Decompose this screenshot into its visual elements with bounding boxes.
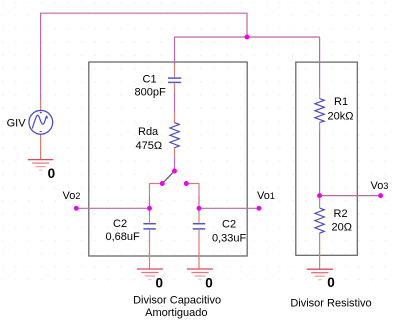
svg-text:GIV: GIV xyxy=(7,118,27,130)
svg-text:20Ω: 20Ω xyxy=(332,222,352,234)
svg-text:0: 0 xyxy=(205,275,213,290)
svg-text:0: 0 xyxy=(156,275,164,290)
svg-text:Amortiguado: Amortiguado xyxy=(145,307,207,319)
svg-text:C2: C2 xyxy=(222,219,236,231)
svg-text:Vo1: Vo1 xyxy=(257,190,275,202)
svg-text:20kΩ: 20kΩ xyxy=(328,111,354,123)
svg-text:R2: R2 xyxy=(334,208,348,220)
svg-text:0: 0 xyxy=(48,166,56,181)
svg-text:0: 0 xyxy=(327,275,335,290)
svg-text:475Ω: 475Ω xyxy=(136,140,163,152)
svg-text:Vo2: Vo2 xyxy=(63,190,81,202)
svg-text:Vo3: Vo3 xyxy=(371,180,389,192)
svg-text:R1: R1 xyxy=(334,96,348,108)
svg-text:C2: C2 xyxy=(113,218,127,230)
svg-text:Divisor Capacitivo: Divisor Capacitivo xyxy=(133,295,221,307)
svg-text:800pF: 800pF xyxy=(135,86,166,98)
svg-text:C1: C1 xyxy=(143,74,157,86)
svg-text:Rda: Rda xyxy=(138,126,159,138)
svg-text:Divisor Resistivo: Divisor Resistivo xyxy=(290,297,371,309)
svg-text:0,68uF: 0,68uF xyxy=(106,231,141,243)
svg-text:0,33uF: 0,33uF xyxy=(212,232,247,244)
